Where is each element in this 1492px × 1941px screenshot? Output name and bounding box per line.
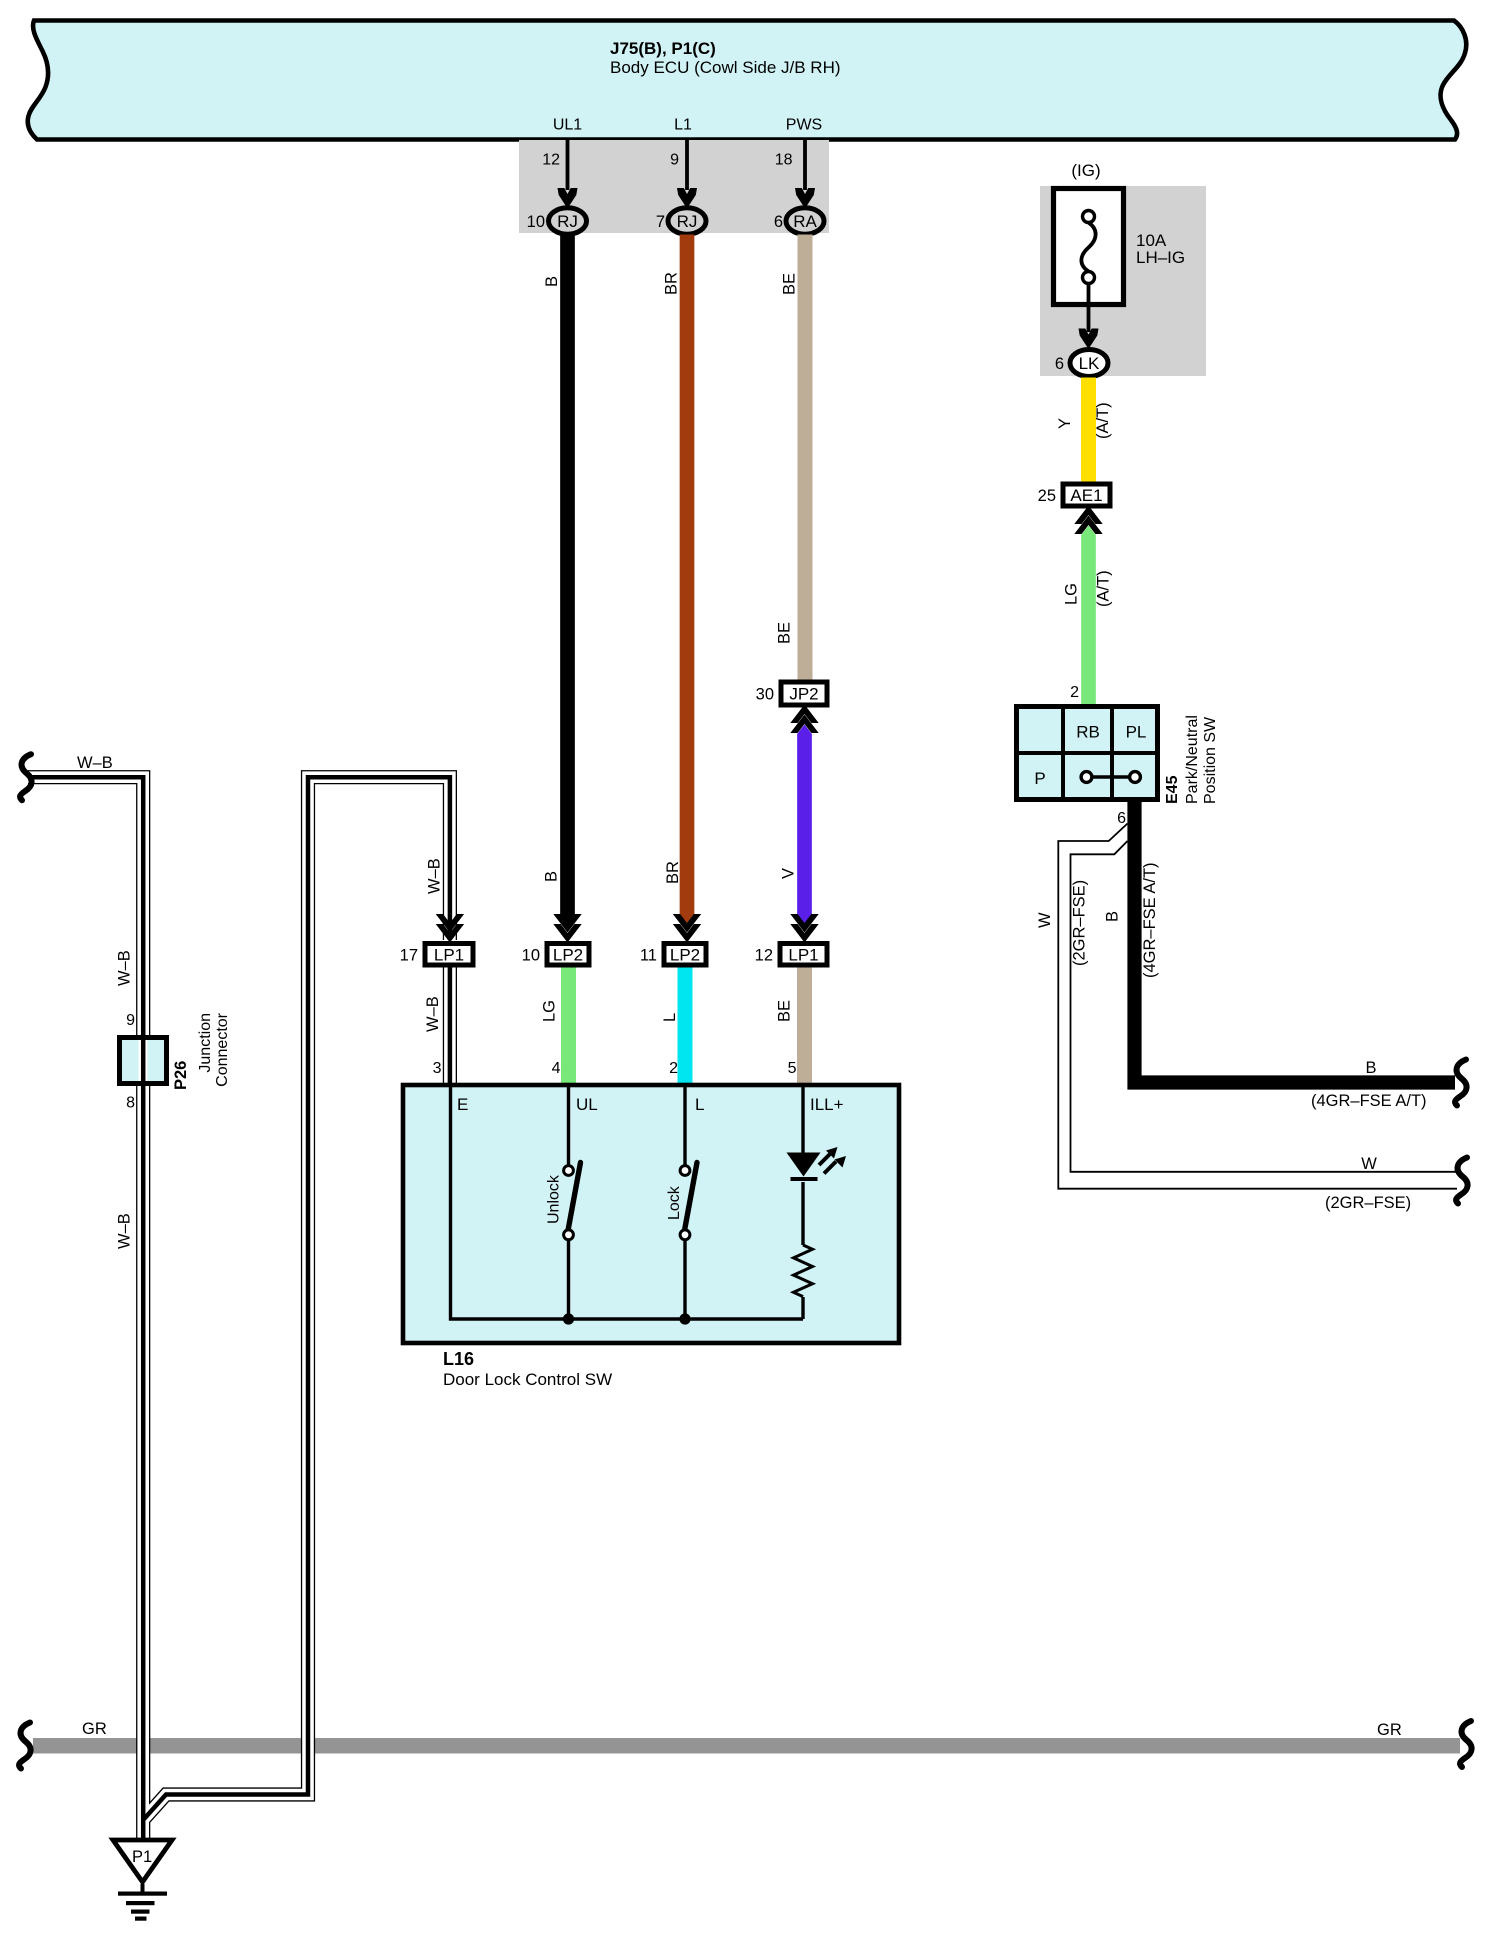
svg-text:12: 12: [755, 946, 773, 964]
wire LG green to E45: [1081, 526, 1096, 705]
svg-text:L: L: [661, 1013, 679, 1022]
tear W wire right: [1456, 1158, 1468, 1204]
svg-text:11: 11: [640, 946, 657, 964]
arrows into LP1 12: [790, 924, 818, 943]
svg-text:B: B: [543, 871, 561, 882]
svg-text:LP2: LP2: [670, 945, 700, 964]
svg-text:6: 6: [1055, 355, 1064, 373]
svg-text:PL: PL: [1126, 723, 1147, 742]
svg-text:RJ: RJ: [557, 212, 578, 231]
svg-text:(4GR–FSE A/T): (4GR–FSE A/T): [1141, 862, 1159, 978]
gray junction block area: [519, 140, 829, 233]
gray fuse block area: [1040, 186, 1206, 376]
ground earth hatching: [141, 1884, 145, 1893]
svg-text:P26: P26: [172, 1061, 190, 1090]
svg-text:PWS: PWS: [786, 117, 822, 134]
svg-text:Junction: Junction: [197, 1013, 214, 1073]
connector oval RJ pin7: [668, 208, 706, 234]
svg-text:Unlock: Unlock: [546, 1174, 563, 1224]
junction node UL/bus: [563, 1313, 574, 1324]
connector oval LK pin6: [1070, 350, 1108, 377]
connector oval RA pin6: [786, 208, 824, 234]
svg-text:6: 6: [774, 213, 783, 231]
svg-text:L: L: [695, 1095, 704, 1114]
svg-text:7: 7: [656, 213, 665, 231]
wire fuse to LK: [1087, 283, 1091, 332]
svg-text:8: 8: [126, 1095, 135, 1112]
svg-text:LK: LK: [1079, 354, 1100, 373]
arrow into LK: [1079, 329, 1099, 350]
svg-text:GR: GR: [1377, 1721, 1402, 1739]
fuse 10A LH-IG: [1054, 189, 1124, 305]
arrow into RJ 10: [558, 188, 578, 209]
svg-text:LG: LG: [541, 1000, 559, 1022]
junction node L/bus: [679, 1313, 690, 1324]
svg-text:25: 25: [1038, 487, 1056, 505]
svg-text:Connector: Connector: [214, 1012, 231, 1086]
svg-text:J75(B), P1(C): J75(B), P1(C): [610, 39, 716, 58]
svg-text:4: 4: [552, 1060, 561, 1077]
svg-text:B: B: [1365, 1059, 1376, 1077]
arrow into RJ 7: [677, 188, 697, 209]
svg-text:LP2: LP2: [553, 945, 583, 964]
svg-text:W–B: W–B: [426, 858, 444, 894]
svg-text:30: 30: [756, 686, 774, 704]
switch Unlock: [564, 1166, 574, 1176]
svg-text:9: 9: [126, 1012, 135, 1029]
svg-text:5: 5: [788, 1060, 797, 1077]
ground P1 triangle: [113, 1840, 172, 1882]
svg-text:BR: BR: [663, 272, 681, 295]
junction connector P26: [117, 1035, 169, 1086]
internal wire UL: [567, 1083, 570, 1166]
wire L1 pin9: [685, 140, 689, 190]
switch Lock: [680, 1166, 690, 1176]
svg-text:3: 3: [433, 1060, 442, 1077]
svg-text:L16: L16: [443, 1349, 474, 1369]
svg-text:P1: P1: [132, 1848, 152, 1866]
wire L blue below LP2: [678, 967, 693, 1084]
svg-text:(A/T): (A/T): [1094, 402, 1112, 439]
svg-text:GR: GR: [82, 1720, 107, 1738]
svg-text:2: 2: [669, 1060, 678, 1077]
svg-text:W: W: [1036, 912, 1054, 928]
wire B black UL1: [560, 235, 575, 925]
wire UL1 pin12: [566, 140, 570, 190]
svg-text:LH–IG: LH–IG: [1136, 248, 1185, 267]
svg-text:Door Lock Control SW: Door Lock Control SW: [443, 1370, 612, 1389]
connector LP2 pin11: [664, 944, 706, 966]
wire LG below LP2: [561, 967, 576, 1084]
svg-text:ILL+: ILL+: [810, 1095, 844, 1114]
svg-text:LG: LG: [1063, 583, 1081, 605]
svg-text:18: 18: [775, 152, 793, 169]
svg-text:6: 6: [1117, 810, 1126, 827]
E45 Park/Neutral Position SW box: [1017, 707, 1158, 800]
wire PWS pin18: [803, 140, 807, 190]
svg-text:Y: Y: [1056, 418, 1074, 429]
svg-text:(A/T): (A/T): [1095, 570, 1113, 607]
tear W-B wire left end: [20, 754, 32, 800]
svg-text:BR: BR: [664, 861, 682, 884]
E45 internal switch: [1087, 775, 1136, 779]
svg-text:L1: L1: [674, 117, 692, 134]
svg-text:(2GR–FSE): (2GR–FSE): [1325, 1194, 1411, 1212]
svg-text:LP1: LP1: [434, 945, 464, 964]
svg-text:W–B: W–B: [77, 754, 113, 772]
internal wire L: [683, 1083, 686, 1166]
L16 Door Lock Control SW box: [403, 1085, 899, 1343]
svg-text:RA: RA: [793, 212, 817, 231]
svg-text:W: W: [1361, 1155, 1377, 1173]
svg-text:Park/Neutral: Park/Neutral: [1184, 715, 1201, 804]
wire W-B ground loop white casings: [28, 777, 143, 1839]
resistor: [794, 1245, 813, 1297]
svg-text:W–B: W–B: [116, 950, 134, 986]
svg-text:B: B: [543, 276, 561, 287]
svg-text:(IG): (IG): [1071, 161, 1100, 180]
svg-text:RB: RB: [1076, 723, 1100, 742]
svg-text:Body ECU (Cowl Side J/B RH): Body ECU (Cowl Side J/B RH): [610, 58, 841, 77]
wire W-B ground: horizontal from torn edge, down past P26 to P1 ground: [28, 777, 143, 1839]
svg-text:Lock: Lock: [666, 1185, 683, 1220]
svg-text:BE: BE: [776, 622, 794, 644]
svg-text:W–B: W–B: [424, 996, 442, 1032]
connector LP1 pin12: [780, 944, 827, 966]
svg-text:UL: UL: [576, 1095, 598, 1114]
connector JP2 pin30: [781, 682, 827, 705]
tear B wire right: [1455, 1060, 1467, 1106]
wire W-B black stripes: [28, 777, 143, 1839]
connector AE1 pin25: [1063, 484, 1110, 506]
svg-text:BE: BE: [776, 1000, 794, 1022]
svg-text:10: 10: [522, 946, 540, 964]
tear GR left: [19, 1723, 31, 1769]
svg-text:(4GR–FSE A/T): (4GR–FSE A/T): [1311, 1092, 1427, 1110]
wire Y yellow: [1081, 378, 1096, 483]
wire GR ground bus: [33, 1738, 1460, 1754]
connector LP2 pin10: [547, 944, 589, 966]
svg-text:2: 2: [1070, 684, 1079, 701]
svg-text:E: E: [457, 1095, 468, 1114]
wire BE beige below LP1: [797, 967, 812, 1084]
tear GR right: [1460, 1721, 1472, 1767]
arrows into LP2 10: [553, 924, 581, 943]
svg-text:V: V: [780, 868, 798, 879]
LED illumination diode: [787, 1153, 821, 1177]
wire BR brown L1: [680, 235, 695, 925]
svg-text:9: 9: [670, 152, 679, 169]
connector oval RJ pin10: [549, 208, 587, 234]
svg-text:P: P: [1034, 769, 1045, 788]
svg-text:E45: E45: [1164, 775, 1181, 804]
LED light arrows: [819, 1153, 831, 1165]
svg-text:AE1: AE1: [1070, 486, 1102, 505]
svg-text:17: 17: [400, 946, 418, 964]
svg-text:Position SW: Position SW: [1202, 716, 1219, 804]
Body ECU cowl side band J75(B),P1(C): [28, 21, 1467, 140]
svg-text:JP2: JP2: [789, 685, 818, 704]
svg-text:B: B: [1104, 911, 1122, 922]
svg-text:W–B: W–B: [116, 1213, 134, 1249]
svg-text:LP1: LP1: [788, 945, 818, 964]
wire BE beige PWS upper: [798, 235, 813, 681]
arrow into RA 6: [795, 188, 815, 209]
arrows into LP1 17: [436, 924, 464, 943]
internal wire E: [451, 1083, 804, 1319]
wire B thick 4GR-FSE: [1135, 802, 1456, 1083]
arrows below AE1: [1074, 506, 1102, 525]
wire V violet JP2 to LP1: [797, 725, 812, 925]
svg-text:12: 12: [542, 152, 560, 169]
svg-text:RJ: RJ: [677, 212, 698, 231]
svg-text:BE: BE: [781, 273, 799, 295]
wire W 2GR-FSE: [1058, 824, 1457, 1189]
arrows into LP2 11: [673, 924, 701, 943]
svg-text:UL1: UL1: [553, 117, 582, 134]
internal wire ILL+: [801, 1083, 804, 1153]
svg-text:10: 10: [527, 213, 545, 231]
arrows below JP2: [790, 705, 818, 724]
connector LP1 pin17: [425, 944, 473, 966]
svg-text:(2GR–FSE): (2GR–FSE): [1071, 880, 1089, 966]
